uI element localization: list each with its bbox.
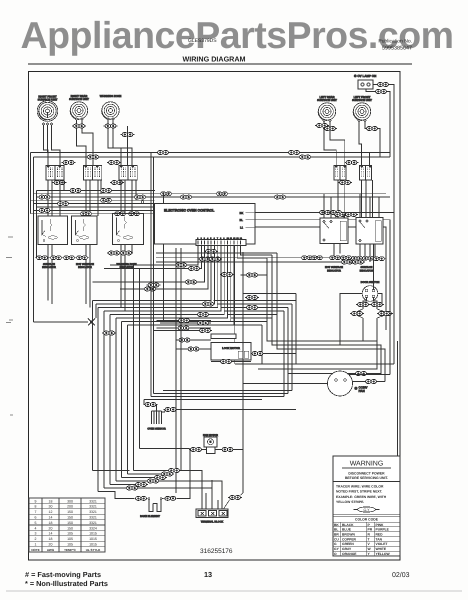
bus connector bbox=[69, 189, 83, 193]
connector harness 2 bbox=[187, 267, 201, 271]
wires into terminal block bbox=[206, 480, 218, 509]
connector terminal right bbox=[228, 496, 242, 500]
right front surface unit bbox=[37, 95, 58, 121]
EOC bottom connector strip P1 bbox=[196, 240, 246, 246]
harness EOC pins short left turns bbox=[93, 246, 208, 290]
connector BK bbox=[318, 211, 332, 215]
wires LR unit to switch bbox=[324, 122, 345, 166]
connector bake left bbox=[134, 496, 148, 500]
svg-text:Publication No.: Publication No. bbox=[378, 39, 412, 45]
connector bus 2 bbox=[196, 313, 210, 317]
relay hot surface indicator bbox=[320, 218, 348, 244]
connector LR lead B bbox=[323, 127, 337, 131]
svg-text:BL: BL bbox=[334, 528, 338, 532]
bundle upper feeds bbox=[134, 265, 140, 471]
wires to lock motor bbox=[154, 321, 212, 350]
svg-text:YELLOW STRIPE.: YELLOW STRIPE. bbox=[336, 500, 364, 504]
svg-text:L1: L1 bbox=[240, 225, 244, 229]
svg-text:02/03: 02/03 bbox=[392, 571, 410, 579]
connector WZ right lead bbox=[121, 133, 135, 137]
svg-text:BLACK: BLACK bbox=[342, 523, 354, 527]
connector below switch 3 bbox=[338, 181, 352, 185]
long vertical harness wires bbox=[151, 153, 243, 494]
connector lock area bbox=[187, 347, 201, 351]
svg-text:18: 18 bbox=[49, 499, 53, 503]
warming zone switch bbox=[119, 166, 137, 181]
convection fan motor bbox=[328, 371, 369, 396]
svg-text:ORANGE: ORANGE bbox=[342, 552, 357, 556]
svg-text:GRAY: GRAY bbox=[342, 547, 352, 551]
svg-text:WARMING ZONE: WARMING ZONE bbox=[100, 95, 122, 98]
svg-text:FAN MOTOR: FAN MOTOR bbox=[203, 434, 218, 437]
svg-text:BROWN: BROWN bbox=[342, 533, 355, 537]
svg-text:ELECTRONIC OVEN CONTROL: ELECTRONIC OVEN CONTROL bbox=[164, 209, 214, 213]
connector on harness vertical bbox=[147, 283, 161, 287]
wire lamp to right side bbox=[373, 85, 394, 365]
bundle turn wires to terminal area bbox=[93, 471, 223, 510]
hot surface indicator left bbox=[72, 216, 98, 245]
svg-text:LOCK MOTOR: LOCK MOTOR bbox=[222, 347, 240, 350]
svg-text:3: 3 bbox=[35, 532, 37, 536]
wire EOC BK bbox=[255, 212, 394, 214]
svg-text:DOOR SWITCH: DOOR SWITCH bbox=[361, 281, 380, 284]
warming zone element bbox=[100, 95, 122, 119]
connector lock area bbox=[177, 326, 191, 330]
warning box bbox=[333, 456, 400, 556]
svg-text:GREEN: GREEN bbox=[342, 542, 354, 546]
connector lock area bbox=[196, 321, 210, 325]
lock switch bar bbox=[211, 334, 236, 339]
connector harness diag bbox=[146, 479, 160, 483]
svg-text:✱ OV LAMP ON: ✱ OV LAMP ON bbox=[354, 74, 376, 78]
connector row left bbox=[49, 256, 63, 260]
connector lock area bbox=[177, 319, 191, 323]
surface switch right front bbox=[46, 166, 64, 181]
svg-text:INDICATOR: INDICATOR bbox=[327, 269, 341, 272]
bus connector bbox=[38, 208, 52, 212]
bus connector bbox=[159, 192, 173, 196]
svg-text:105: 105 bbox=[67, 543, 73, 547]
connector mid bbox=[198, 257, 212, 261]
connector above relay 2 bbox=[344, 213, 358, 217]
connector row left bbox=[75, 256, 89, 260]
connector BK2 bbox=[329, 211, 343, 215]
svg-text:20: 20 bbox=[49, 543, 53, 547]
svg-text:T: T bbox=[368, 537, 370, 541]
wires conv fan bbox=[243, 375, 390, 384]
svg-text:200: 200 bbox=[67, 505, 73, 509]
svg-text:8: 8 bbox=[35, 505, 37, 509]
svg-text:BK: BK bbox=[334, 523, 339, 527]
wires WZ to switch bbox=[108, 120, 132, 165]
svg-text:12: 12 bbox=[49, 510, 53, 514]
connector RR lead bbox=[72, 124, 86, 128]
relay surface indicator bbox=[356, 218, 383, 245]
svg-text:150: 150 bbox=[67, 526, 73, 530]
bus connector bbox=[99, 189, 113, 193]
connector lamp line 2 bbox=[374, 90, 388, 94]
wires RF unit to switch bbox=[44, 112, 61, 166]
connector harness diag bbox=[134, 483, 148, 487]
wires lock motor bbox=[211, 354, 296, 362]
svg-text:PR: PR bbox=[368, 528, 373, 532]
svg-text:TRACER WIRE: WIRE COLOR: TRACER WIRE: WIRE COLOR bbox=[336, 485, 384, 489]
title underline bbox=[28, 63, 412, 65]
svg-text:BAKE ELEMENT: BAKE ELEMENT bbox=[140, 515, 160, 518]
warming zone indicator bbox=[113, 214, 144, 245]
left front surface unit bbox=[352, 96, 372, 120]
connector above switches 1 bbox=[62, 161, 76, 165]
connector mid bbox=[204, 250, 218, 254]
svg-text:WIRING DIAGRAM: WIRING DIAGRAM bbox=[182, 55, 245, 64]
scan artifact marks left margin bbox=[6, 237, 13, 415]
connector L1 drop bbox=[379, 312, 393, 316]
svg-text:3321: 3321 bbox=[89, 521, 97, 525]
svg-text:3321: 3321 bbox=[89, 505, 97, 509]
vertical from L1 connector bbox=[163, 194, 165, 321]
connector stub bbox=[245, 273, 259, 277]
svg-text:YELLOW: YELLOW bbox=[376, 552, 391, 556]
bake element bbox=[140, 498, 162, 518]
connector C2 bbox=[354, 372, 368, 376]
svg-text:BLUE: BLUE bbox=[342, 528, 352, 532]
connector below switch 2 bbox=[110, 181, 124, 185]
svg-text:NOTED FIRST, STRIPE NEXT.: NOTED FIRST, STRIPE NEXT. bbox=[336, 490, 382, 494]
svg-text:2: 2 bbox=[35, 537, 37, 541]
harness EOC pins down-right bbox=[237, 246, 272, 276]
wire EOC BL bbox=[255, 220, 390, 375]
bus connector bbox=[38, 195, 52, 199]
svg-text:7: 7 bbox=[35, 510, 37, 514]
connector LR lead A bbox=[315, 124, 329, 128]
connector bus bbox=[201, 302, 215, 306]
svg-text:# = Fast-moving Parts: # = Fast-moving Parts bbox=[25, 570, 101, 579]
svg-text:105: 105 bbox=[67, 537, 73, 541]
connector harness diag bbox=[153, 476, 167, 480]
svg-text:1015: 1015 bbox=[89, 532, 97, 536]
terminal block TB1 bbox=[196, 509, 228, 524]
connector mid bbox=[328, 256, 342, 260]
connector DS left bbox=[356, 303, 370, 307]
connector bbox=[107, 251, 121, 255]
svg-text:150: 150 bbox=[67, 521, 73, 525]
wire EOC L1 bbox=[255, 227, 386, 330]
svg-text:5995385647: 5995385647 bbox=[382, 46, 412, 52]
connector bake right bbox=[163, 496, 177, 500]
connector lamp line 1 bbox=[376, 83, 390, 87]
bus rows upper left bbox=[31, 191, 391, 214]
bus connector bbox=[273, 195, 287, 199]
connector mid bbox=[340, 260, 354, 264]
connector jumper bbox=[245, 296, 259, 300]
electronic oven control U1 bbox=[155, 204, 256, 245]
surface switch left rear bbox=[334, 166, 346, 181]
wire WZ right lead bbox=[127, 126, 129, 166]
connector bundle bbox=[102, 331, 116, 335]
wires LF unit to switch bbox=[359, 122, 380, 166]
svg-text:6: 6 bbox=[35, 516, 37, 520]
connector lock bottom bbox=[219, 360, 233, 364]
svg-text:* = Non-Illustrated Parts: * = Non-Illustrated Parts bbox=[25, 579, 108, 588]
svg-text:14: 14 bbox=[49, 516, 53, 520]
wires RR unit to switch bbox=[77, 120, 94, 165]
connector mid bbox=[310, 256, 324, 260]
svg-text:3321: 3321 bbox=[89, 510, 97, 514]
loop wire C2 bbox=[272, 255, 381, 374]
connector mid bbox=[339, 256, 353, 260]
svg-text:✱: ✱ bbox=[355, 387, 358, 391]
svg-text:COPPER: COPPER bbox=[342, 537, 357, 541]
wires fan motor bbox=[140, 449, 244, 450]
surface switch left front bbox=[360, 166, 372, 181]
junction splice bbox=[88, 319, 95, 326]
connector above relay bbox=[333, 213, 347, 217]
svg-text:105: 105 bbox=[67, 532, 73, 536]
footer rule bbox=[6, 590, 462, 592]
left rear surface unit bbox=[317, 96, 337, 120]
svg-text:GLES379DS: GLES379DS bbox=[188, 38, 217, 44]
svg-text:O: O bbox=[334, 552, 337, 556]
connector mid bbox=[351, 260, 365, 264]
vertical right inner bbox=[397, 341, 399, 456]
svg-text:FAN: FAN bbox=[359, 389, 366, 393]
connector sensor bbox=[144, 403, 158, 407]
connector DS lower right bbox=[377, 312, 391, 316]
svg-text:5: 5 bbox=[35, 521, 37, 525]
connector harness 4 bbox=[143, 287, 157, 291]
bus connector bbox=[133, 195, 147, 199]
svg-text:TERMINAL BLOCK: TERMINAL BLOCK bbox=[201, 521, 224, 524]
lock motor M2 bbox=[211, 343, 251, 361]
svg-text:WHITE: WHITE bbox=[376, 547, 387, 551]
svg-text:SURFACE UNIT: SURFACE UNIT bbox=[38, 98, 58, 101]
connector lock area bbox=[178, 338, 192, 342]
surface switch right rear bbox=[84, 166, 102, 181]
svg-text:3321: 3321 bbox=[89, 499, 97, 503]
left feeder verticals bbox=[31, 153, 37, 323]
connector bus N right bbox=[298, 155, 312, 159]
svg-text:INDICATOR: INDICATOR bbox=[42, 266, 56, 269]
connector row left bbox=[62, 256, 76, 260]
svg-text:300: 300 bbox=[67, 499, 73, 503]
svg-text:WARNING: WARNING bbox=[350, 461, 384, 468]
svg-text:13: 13 bbox=[204, 570, 212, 579]
wire lamp line 2 bbox=[366, 89, 390, 157]
oven temperature sensor RTD bbox=[144, 400, 166, 431]
connector bus N left bbox=[86, 155, 100, 159]
connector above switches 2 bbox=[107, 161, 121, 165]
door switch S1 bbox=[361, 281, 380, 301]
svg-text:OVEN SENSOR: OVEN SENSOR bbox=[147, 428, 166, 431]
connector jumper 2 bbox=[245, 306, 259, 310]
svg-text:BL: BL bbox=[240, 218, 244, 222]
verticals down to loop band bbox=[243, 294, 296, 384]
bus connector bbox=[56, 202, 70, 206]
svg-text:30: 30 bbox=[49, 505, 53, 509]
bus connector bbox=[179, 195, 193, 199]
harness EOC pins down-left bbox=[93, 246, 221, 312]
connector on pin drops bbox=[220, 273, 234, 277]
svg-text:RED: RED bbox=[376, 533, 384, 537]
svg-text:3321: 3321 bbox=[89, 516, 97, 520]
connector mid bbox=[300, 256, 314, 260]
lower bus right extensions bbox=[213, 301, 296, 326]
svg-text:SURFACE UNIT: SURFACE UNIT bbox=[69, 98, 89, 101]
connector fan right bbox=[364, 380, 378, 384]
bus connector bbox=[127, 212, 141, 216]
wires relays vertical feeds bbox=[324, 194, 379, 218]
svg-text:14: 14 bbox=[49, 532, 53, 536]
svg-text:18: 18 bbox=[49, 521, 53, 525]
svg-text:150: 150 bbox=[67, 516, 73, 520]
svg-text:G-Y: G-Y bbox=[363, 508, 370, 512]
svg-text:TAN: TAN bbox=[376, 537, 383, 541]
loop wire C1 bbox=[258, 258, 377, 369]
svg-text:G: G bbox=[334, 542, 337, 546]
svg-text:20: 20 bbox=[49, 526, 53, 530]
connector harness 3 bbox=[184, 280, 198, 284]
connector sensor lead bbox=[164, 408, 178, 412]
connector bus L1 right bbox=[287, 151, 301, 155]
connector mid bbox=[372, 257, 386, 261]
svg-text:BK: BK bbox=[240, 211, 244, 215]
connector above switches 3 bbox=[345, 161, 359, 165]
connector mid bbox=[208, 257, 222, 261]
svg-text:VIOLET: VIOLET bbox=[376, 542, 388, 546]
svg-text:INDICATOR: INDICATOR bbox=[360, 269, 374, 272]
svg-text:9: 9 bbox=[35, 499, 37, 503]
wires switches to indicators bbox=[48, 180, 64, 216]
svg-text:GY: GY bbox=[334, 547, 340, 551]
connector harness diag bbox=[167, 469, 181, 473]
svg-text:AWG: AWG bbox=[47, 548, 55, 552]
connector bbox=[119, 251, 133, 255]
svg-text:150: 150 bbox=[67, 510, 73, 514]
cooling fan motor M1 bbox=[203, 434, 218, 454]
wires bake element bbox=[98, 449, 190, 499]
wires indicators to lower buses bbox=[48, 245, 132, 312]
surface indicator bbox=[38, 216, 68, 245]
wires door switch bbox=[363, 244, 377, 345]
svg-text:TEMP°C: TEMP°C bbox=[64, 548, 77, 552]
lower horizontal buses bbox=[93, 301, 140, 492]
connector lock area bbox=[198, 329, 212, 333]
svg-text:BEFORE SERVICING UNIT.: BEFORE SERVICING UNIT. bbox=[345, 476, 388, 480]
lower horizontal band wires bbox=[144, 391, 292, 400]
bus line L1 top bbox=[31, 152, 391, 154]
wire sensor right bbox=[162, 410, 297, 413]
connector harness diag bbox=[125, 486, 139, 490]
bus connector bbox=[99, 198, 113, 202]
connector DS lower left bbox=[350, 312, 364, 316]
svg-text:316255176: 316255176 bbox=[200, 548, 233, 555]
wire mid right horizontal bbox=[235, 246, 394, 365]
bus connector bbox=[113, 212, 127, 216]
bus lines mid right bbox=[156, 253, 342, 262]
connector WZ lead bbox=[104, 124, 118, 128]
loop wire C3 bbox=[277, 253, 385, 382]
svg-text:1015: 1015 bbox=[89, 543, 97, 547]
connector LF lead bbox=[365, 127, 379, 131]
svg-text:18: 18 bbox=[49, 537, 53, 541]
connector bus L1 bbox=[156, 151, 170, 155]
connector below switch 1 bbox=[53, 181, 67, 185]
svg-text:BR: BR bbox=[334, 533, 339, 537]
connector lock right bbox=[251, 352, 265, 356]
surface unit terminal pins bbox=[42, 118, 366, 125]
connector mid bbox=[350, 256, 364, 260]
connector DS right bbox=[370, 303, 384, 307]
connector harness diag bbox=[160, 472, 174, 476]
connector fan left bbox=[189, 448, 203, 452]
wire gauge table bbox=[29, 498, 105, 552]
connector fan right bbox=[221, 448, 235, 452]
svg-text:EXAMPLE: GREEN WIRE, WITH: EXAMPLE: GREEN WIRE, WITH bbox=[336, 495, 387, 499]
svg-text:NOTE: NOTE bbox=[31, 548, 39, 552]
page border bbox=[29, 72, 401, 561]
oven lamp assembly bbox=[354, 74, 376, 89]
junction terminal bbox=[141, 201, 144, 204]
svg-text:1015: 1015 bbox=[89, 537, 97, 541]
svg-text:UL STYLE: UL STYLE bbox=[86, 548, 100, 552]
bus connector bbox=[79, 212, 93, 216]
svg-text:4: 4 bbox=[35, 526, 37, 530]
connector row left bbox=[35, 256, 49, 260]
svg-text:PURPLE: PURPLE bbox=[376, 528, 390, 532]
svg-text:SURFACE UNIT: SURFACE UNIT bbox=[352, 99, 372, 102]
svg-text:CU: CU bbox=[334, 537, 339, 541]
svg-text:1: 1 bbox=[35, 543, 37, 547]
svg-text:3324: 3324 bbox=[89, 526, 97, 530]
bus line N top bbox=[34, 156, 391, 158]
connector mid bbox=[361, 256, 375, 260]
bus connector bbox=[215, 192, 229, 196]
right rear surface unit bbox=[69, 95, 89, 119]
svg-text:PINK: PINK bbox=[376, 523, 384, 527]
svg-text:COLOR CODE: COLOR CODE bbox=[355, 518, 379, 522]
svg-text:SURFACE UNIT: SURFACE UNIT bbox=[317, 99, 337, 102]
connector harness 1 bbox=[174, 263, 188, 267]
